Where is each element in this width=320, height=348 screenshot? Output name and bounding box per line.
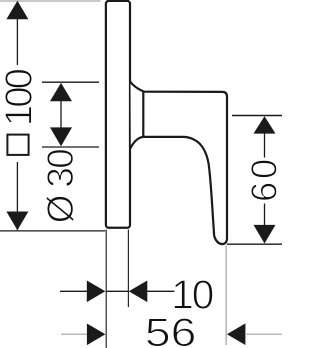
svg-text:100: 100 xyxy=(0,68,41,126)
svg-text:56: 56 xyxy=(145,311,197,348)
svg-text:60: 60 xyxy=(244,159,282,202)
svg-text:Ø 30: Ø 30 xyxy=(40,148,81,223)
